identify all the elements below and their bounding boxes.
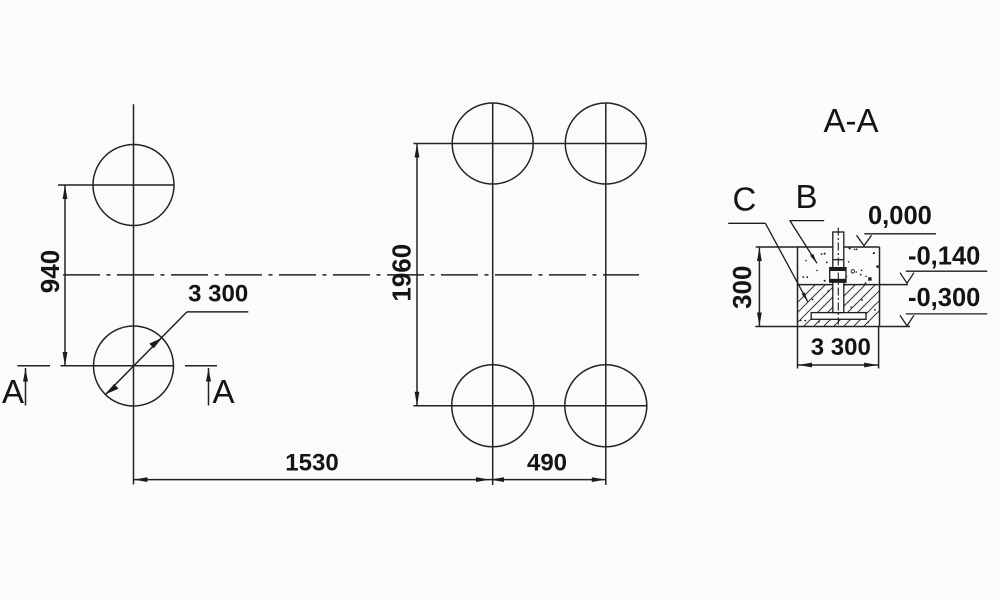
-0,300 [906, 313, 988, 315]
svg-text:C: C [733, 180, 757, 217]
section cut mark A right [208, 368, 210, 406]
0,000 [864, 233, 936, 235]
anchor bolt [811, 228, 866, 325]
node: circle top middle-left [452, 103, 533, 184]
svg-text:A: A [2, 373, 24, 410]
wire: middle-left vertical [492, 103, 494, 485]
rod [833, 232, 844, 313]
wire: horizontal through bottom-left circle [61, 365, 175, 367]
main horizontal dash-dot centerline [63, 274, 639, 276]
svg-text:1960: 1960 [387, 244, 417, 302]
-0,140 [906, 270, 988, 272]
svg-text:-0,300: -0,300 [908, 284, 980, 312]
svg-text:300: 300 [727, 266, 757, 309]
leaders C and B [728, 221, 824, 302]
svg-text:3 300: 3 300 [188, 281, 248, 308]
diameter leader 3 300 on bottom-left circle [106, 312, 187, 394]
node: circle bottom middle-right [565, 365, 647, 447]
svg-text:A-A: A-A [823, 102, 878, 139]
wire: left vertical centerline [133, 104, 135, 484]
node: top-left anchor circle [93, 145, 174, 226]
section cut mark A left [25, 368, 27, 406]
bolt centerline [837, 228, 839, 325]
node: circle top middle-right [565, 103, 646, 184]
svg-text:3 300: 3 300 [811, 334, 871, 361]
svg-text:1530: 1530 [285, 450, 338, 477]
wire: horizontal through top-left circle center [58, 184, 175, 186]
svg-text:940: 940 [35, 250, 65, 293]
svg-text:-0,140: -0,140 [908, 243, 980, 271]
boundary line at -0.140 extending to elevation arrow [798, 284, 909, 286]
hatching lower part [760, 280, 910, 340]
node: bottom-left anchor circle [94, 326, 174, 406]
wire: horizontal right piece (right A mark extension) [185, 365, 217, 367]
svg-text:A: A [213, 373, 235, 410]
concrete stipple dots [800, 247, 879, 321]
svg-text:B: B [796, 178, 818, 215]
nut [830, 268, 846, 283]
svg-text:490: 490 [527, 450, 567, 477]
wire: horizontal at bottom-left circle center, left piece [18, 365, 51, 367]
dimension 3 300 below section [797, 327, 799, 369]
wire: horizontal through bottom pair centers [414, 405, 648, 407]
dimension 300 [758, 247, 760, 327]
svg-text:0,000: 0,000 [868, 202, 932, 230]
plate [811, 313, 866, 320]
dimension 1960 line [416, 144, 418, 406]
node: circle bottom middle-left [452, 365, 534, 447]
elevation marks [857, 234, 988, 326]
dimension 940 line [64, 185, 66, 366]
dimension 1530 / 490 baseline [134, 479, 606, 481]
wire: horizontal through top pair centers [414, 143, 647, 145]
wire: middle-right vertical [605, 103, 607, 485]
foundation block outline [756, 246, 880, 248]
